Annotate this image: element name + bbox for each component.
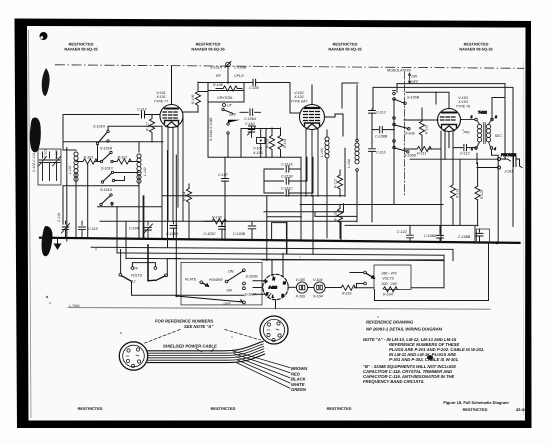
- svg-text:R-115: R-115: [334, 212, 338, 221]
- resistor R-113: [278, 128, 283, 157]
- svg-text:R-108: R-108: [213, 83, 223, 87]
- svg-text:C-108A: C-108A: [424, 234, 437, 238]
- header RESTRICTED NAVAER #4: [459, 42, 493, 52]
- switch S-101A: [93, 125, 109, 145]
- coil L-103: [325, 130, 329, 196]
- svg-text:L-7600: L-7600: [69, 304, 80, 308]
- switch S-105D: [393, 140, 417, 158]
- svg-text:BROWN: BROWN: [291, 366, 308, 371]
- svg-text:OFF: OFF: [224, 302, 232, 306]
- svg-text:C-119: C-119: [88, 227, 98, 231]
- svg-text:C-115: C-115: [376, 151, 386, 155]
- transformer wires: [460, 148, 498, 244]
- label V-103: [456, 96, 470, 109]
- header RESTRICTED NAVAER #3: [328, 42, 362, 52]
- svg-text:L: L: [272, 295, 274, 299]
- capacitor C-106: [253, 79, 256, 85]
- antenna tuning box: [38, 149, 61, 185]
- crystal box: [208, 91, 244, 103]
- header RESTRICTED NAVAER #2: [191, 42, 225, 52]
- svg-text:GREEN: GREEN: [291, 387, 307, 392]
- voltage select box: [374, 265, 411, 290]
- switch S-101C: [101, 167, 115, 184]
- svg-text:C-113: C-113: [376, 111, 386, 115]
- svg-text:RESTRICTED: RESTRICTED: [327, 406, 352, 411]
- capacitor C-110 variable: [248, 126, 256, 138]
- svg-text:SEE NOTE "A": SEE NOTE "A": [184, 324, 214, 329]
- svg-text:24: 24: [133, 267, 138, 271]
- capacitor C-102: [46, 152, 53, 181]
- switch S-102A: [175, 287, 257, 306]
- svg-text:C-103C: C-103C: [204, 232, 217, 236]
- svg-text:PLATE: PLATE: [185, 278, 197, 282]
- rail 4: [126, 258, 444, 260]
- svg-text:C-112: C-112: [460, 152, 470, 156]
- switch S-102B: [185, 269, 258, 286]
- header RESTRICTED NAVAER #1: [64, 42, 98, 52]
- capacitor C-103C: [219, 223, 226, 239]
- svg-text:C-109A: C-109A: [166, 232, 179, 236]
- svg-text:R-109: R-109: [191, 95, 195, 104]
- svg-text:C-117: C-117: [137, 108, 148, 112]
- svg-text:L-102: L-102: [143, 167, 147, 176]
- small specks: [46, 129, 464, 337]
- svg-text:V-104: V-104: [313, 278, 322, 282]
- svg-text:C-122: C-122: [397, 230, 407, 234]
- resistor R-117: [149, 115, 154, 142]
- lower separator wire: [68, 308, 490, 310]
- svg-text:TYPE 76: TYPE 76: [456, 105, 470, 109]
- label V-102: [291, 91, 309, 104]
- svg-text:RESTRICTED: RESTRICTED: [211, 406, 236, 411]
- svg-text:S-105D: S-105D: [404, 154, 417, 158]
- svg-text:S-101D: S-101D: [100, 188, 113, 192]
- svg-text:2: 2: [470, 115, 473, 119]
- capacitor C-103A: [170, 221, 177, 238]
- shielded cable label: [163, 344, 217, 353]
- capacitor C-108B boxed: [476, 229, 489, 243]
- bottom right wires: [262, 243, 489, 300]
- resistor R-111: [417, 146, 431, 151]
- svg-text:MODULATION: MODULATION: [387, 69, 411, 73]
- svg-text:3: 3: [495, 115, 497, 119]
- svg-text:S-104A S-104B: S-104A S-104B: [209, 117, 213, 141]
- svg-text:12: 12: [132, 280, 136, 284]
- svg-text:ON: ON: [227, 288, 233, 292]
- svg-text:RESTRICTED: RESTRICTED: [463, 407, 488, 412]
- switch S-101B: [100, 147, 113, 163]
- svg-text:R-113: R-113: [283, 139, 287, 148]
- svg-text:X-104: X-104: [312, 295, 323, 299]
- resistor R-114: [186, 184, 191, 239]
- phones jack: [410, 153, 522, 169]
- svg-text:T-101: T-101: [478, 111, 487, 115]
- crystal network wires: [228, 129, 281, 158]
- svg-text:C-111A: C-111A: [281, 163, 293, 167]
- svg-text:C-105B: C-105B: [234, 66, 247, 70]
- capacitor C-119: [79, 221, 86, 238]
- svg-text:C-101: C-101: [44, 149, 48, 158]
- coil L-102: [137, 154, 141, 183]
- resistor R-112 top: [419, 121, 424, 135]
- coil L-101: [74, 152, 78, 181]
- svg-text:C-118: C-118: [57, 213, 61, 222]
- svg-text:S-102B: S-102B: [246, 274, 259, 278]
- svg-text:NAVAER 08-5Q-35: NAVAER 08-5Q-35: [64, 47, 98, 52]
- svg-text:X-105: X-105: [295, 295, 306, 299]
- svg-text:X-101: X-101: [155, 95, 166, 99]
- svg-text:J-102: J-102: [268, 286, 278, 290]
- resistor R-105: [204, 219, 226, 224]
- svg-text:NAVAER 08-5Q-35: NAVAER 08-5Q-35: [191, 47, 225, 52]
- svg-text:C-104: C-104: [129, 227, 139, 231]
- capacitor C-108A on bus: [437, 226, 444, 242]
- reference notes block: [363, 320, 484, 385]
- modulation chain line: [404, 72, 406, 196]
- svg-text:TYPE 77: TYPE 77: [154, 100, 169, 104]
- color labels: [291, 366, 308, 392]
- svg-text:CPLG: CPLG: [234, 74, 244, 78]
- capacitor C-103B: [248, 222, 255, 239]
- svg-text:R-102: R-102: [118, 156, 128, 160]
- triode V-101: [160, 67, 183, 222]
- left region wires: [63, 115, 356, 296]
- svg-text:L-103: L-103: [320, 148, 324, 157]
- svg-text:ON.: ON.: [228, 269, 234, 273]
- svg-text:C-107: C-107: [218, 173, 229, 177]
- ink blob top left: [40, 32, 48, 40]
- ballast V-104: [314, 282, 325, 293]
- svg-text:X-103: X-103: [457, 100, 468, 104]
- svg-text:FREQUENCY BAND CIRCUITS.: FREQUENCY BAND CIRCUITS.: [363, 379, 425, 384]
- svg-text:43-44: 43-44: [516, 407, 527, 412]
- ink blob left big: [30, 117, 41, 152]
- reference leader text: [144, 319, 261, 344]
- capacitor C-111B: [264, 178, 307, 184]
- fold chain line: [55, 65, 524, 69]
- svg-text:FOR REFERENCE NUMBERS: FOR REFERENCE NUMBERS: [155, 319, 213, 324]
- capacitor C-109A: [240, 109, 261, 115]
- B+ bus thick: [40, 238, 520, 243]
- svg-text:C-110: C-110: [245, 122, 255, 126]
- svg-text:RESTRICTED: RESTRICTED: [78, 406, 103, 411]
- rail 2: [91, 247, 453, 249]
- svg-text:SHIELDED POWER CABLE: SHIELDED POWER CABLE: [163, 344, 217, 349]
- svg-text:R-113: R-113: [456, 189, 460, 198]
- resistor R-113 right: [450, 185, 455, 199]
- capacitor C-118: [53, 152, 61, 181]
- capacitor C-117: [63, 111, 160, 118]
- svg-text:S-101B: S-101B: [100, 147, 113, 151]
- antenna post: [225, 62, 231, 84]
- resistor R-115: [337, 205, 342, 239]
- svg-text:C-111B: C-111B: [281, 175, 293, 179]
- svg-text:TYPE 6A7: TYPE 6A7: [291, 100, 309, 104]
- svg-text:X-102: X-102: [293, 95, 304, 99]
- plate power box: [181, 262, 262, 305]
- svg-text:POWER: POWER: [209, 278, 223, 282]
- svg-text:R-120: R-120: [480, 190, 484, 199]
- resistor R-104: [375, 287, 398, 292]
- svg-text:R-112: R-112: [425, 125, 429, 134]
- ink blob flame: [42, 68, 50, 96]
- mid wires: [162, 148, 478, 260]
- wire fan to color labels: [231, 350, 290, 388]
- rail 3: [117, 253, 444, 255]
- capacitor C-108B series: [372, 126, 394, 132]
- svg-text:PHONES: PHONES: [501, 153, 517, 157]
- switch voltage select: [350, 271, 375, 288]
- svg-text:NAVAER 08-5Q-35: NAVAER 08-5Q-35: [459, 47, 493, 52]
- svg-text:C-108B: C-108B: [375, 135, 388, 139]
- svg-text:CRYSTAL: CRYSTAL: [217, 96, 233, 100]
- svg-text:R-105: R-105: [212, 215, 222, 219]
- resistor R-112 mid: [337, 170, 342, 196]
- svg-text:R-112: R-112: [334, 179, 338, 188]
- svg-text:L-104: L-104: [347, 159, 351, 168]
- left plug P-201: [119, 342, 147, 370]
- svg-text:NP 26093-1 DETAIL WIRING DIAG: NP 26093-1 DETAIL WIRING DIAGRAM: [366, 327, 443, 332]
- svg-text:C-103B: C-103B: [233, 232, 246, 236]
- svg-text:200 - 240: 200 - 240: [380, 282, 396, 286]
- wire between ballasts: [308, 287, 341, 289]
- resistor R-109: [183, 82, 201, 112]
- svg-text:R-116: R-116: [342, 292, 352, 296]
- svg-text:ON: ON: [412, 75, 418, 79]
- svg-text:280 - 475: 280 - 475: [380, 271, 396, 275]
- svg-text:S-101A: S-101A: [93, 125, 106, 129]
- crystal unit Y-101 box: [257, 138, 266, 144]
- svg-text:R-104: R-104: [383, 293, 393, 297]
- capacitor C-111C: [264, 190, 313, 196]
- capacitor C-114: [369, 109, 376, 130]
- junction dots on bus: [75, 237, 499, 244]
- svg-text:REFERENCE DRAWING: REFERENCE DRAWING: [366, 320, 414, 325]
- capacitor C-112: [453, 144, 475, 150]
- coil L-104: [355, 85, 359, 222]
- svg-text:S-101C: S-101C: [101, 167, 114, 171]
- capacitor C-107: [222, 157, 229, 239]
- OUT terminal: [223, 104, 233, 108]
- svg-text:C-106: C-106: [249, 86, 259, 90]
- svg-text:P-301 AND P-302, CABLE IS W-30: P-301 AND P-302, CABLE IS W-301.: [389, 357, 459, 362]
- capacitor C-104 variable: [144, 221, 153, 238]
- top right wires: [342, 83, 513, 242]
- svg-text:R-117: R-117: [146, 122, 150, 131]
- pentagrid V-102: [300, 85, 344, 196]
- svg-text:PRI.: PRI.: [464, 131, 471, 135]
- cable bundle: [148, 341, 265, 362]
- resistor R-116: [341, 285, 374, 290]
- svg-text:V-105: V-105: [296, 278, 305, 282]
- svg-text:R-114: R-114: [183, 192, 187, 201]
- svg-text:S-105B: S-105B: [407, 96, 420, 100]
- switch S-101D: [100, 188, 113, 206]
- resistor R-110: [269, 128, 274, 157]
- svg-text:L-101: L-101: [68, 165, 72, 174]
- ballast V-105: [296, 282, 307, 293]
- svg-text:C-109A: C-109A: [244, 117, 257, 121]
- resistor R-101: [83, 159, 97, 164]
- svg-text:S-639: S-639: [405, 132, 415, 136]
- wires crystal area: [198, 83, 301, 158]
- svg-text:C-118: C-118: [55, 150, 59, 159]
- resistor R-102: [117, 159, 131, 164]
- svg-text:SEC.: SEC.: [495, 134, 503, 138]
- ground: [54, 239, 62, 250]
- svg-text:UT: UT: [227, 104, 233, 108]
- svg-text:J-101: J-101: [503, 170, 513, 174]
- capacitor C-111A: [264, 166, 301, 172]
- capacitor C-115: [369, 130, 376, 222]
- triode V-103: [404, 109, 461, 148]
- plug stub wires: [253, 253, 296, 308]
- switch S-639: [393, 117, 415, 136]
- page left edge shadow line: [29, 30, 32, 418]
- svg-text:OFF: OFF: [229, 113, 237, 117]
- svg-text:S-101A: S-101A: [210, 66, 223, 70]
- svg-text:M: M: [283, 281, 286, 285]
- resistor R-120: [475, 186, 480, 200]
- switch S-105B: [393, 91, 420, 105]
- svg-text:R-110: R-110: [266, 139, 270, 148]
- svg-text:VOLTS: VOLTS: [382, 277, 394, 281]
- svg-text:VOLTS: VOLTS: [131, 274, 143, 278]
- 24 volt selector: [121, 196, 244, 295]
- svg-text:C-111C: C-111C: [281, 187, 293, 191]
- capacitor C-122 on bus: [407, 226, 414, 241]
- svg-text:R-101: R-101: [84, 156, 94, 160]
- svg-text:R-111: R-111: [417, 152, 426, 156]
- ink blob left mid: [42, 226, 53, 256]
- svg-text:C-108B: C-108B: [458, 235, 471, 239]
- svg-text:4: 4: [494, 147, 496, 151]
- svg-text:RF: RF: [216, 74, 222, 78]
- capacitor C-118b: [62, 221, 70, 238]
- capacitor C-101: [39, 152, 47, 181]
- label V-101: [154, 91, 169, 104]
- resistor R-108: [216, 86, 242, 91]
- svg-text:NAVAER 08-5Q-35: NAVAER 08-5Q-35: [328, 47, 362, 52]
- right plug P-202: [260, 316, 288, 344]
- connector plug J-102: [263, 274, 288, 299]
- svg-text:Figure 18. Full Schematic Dia: Figure 18. Full Schematic Diagram: [443, 400, 509, 405]
- svg-text:C-102 C-101: C-102 C-101: [32, 152, 36, 172]
- transformer T-101: [461, 111, 497, 152]
